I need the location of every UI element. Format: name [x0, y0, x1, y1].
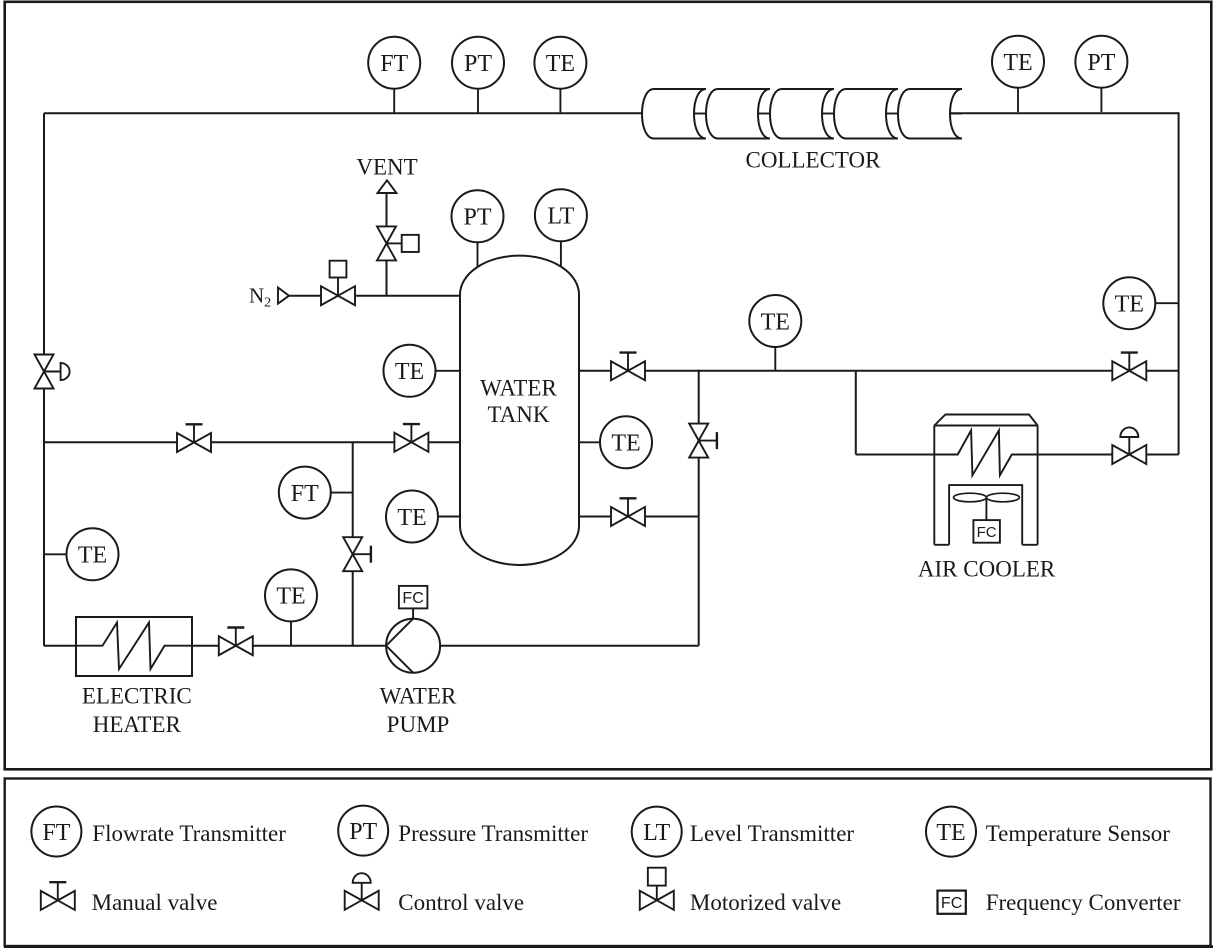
svg-text:WATER: WATER [380, 684, 457, 709]
svg-text:TE: TE [761, 309, 790, 335]
svg-text:PT: PT [349, 819, 377, 845]
svg-text:TE: TE [276, 584, 305, 610]
svg-text:Manual valve: Manual valve [92, 890, 218, 915]
svg-text:LT: LT [547, 204, 574, 230]
svg-text:Pressure Transmitter: Pressure Transmitter [398, 821, 588, 846]
svg-text:COLLECTOR: COLLECTOR [745, 148, 881, 173]
svg-text:TE: TE [936, 820, 965, 846]
svg-text:FT: FT [42, 820, 70, 846]
svg-text:PUMP: PUMP [387, 712, 450, 737]
svg-text:Motorized valve: Motorized valve [690, 890, 841, 915]
svg-text:FT: FT [291, 481, 319, 507]
svg-text:WATER: WATER [480, 375, 557, 400]
svg-text:Temperature Sensor: Temperature Sensor [986, 821, 1171, 846]
svg-text:Frequency Converter: Frequency Converter [986, 890, 1181, 915]
svg-text:PT: PT [464, 51, 492, 77]
svg-text:TE: TE [395, 359, 424, 385]
svg-text:FC: FC [941, 895, 962, 912]
svg-text:TE: TE [1115, 291, 1144, 317]
svg-text:FC: FC [977, 524, 997, 541]
svg-text:VENT: VENT [356, 155, 417, 180]
svg-text:TE: TE [78, 543, 107, 569]
svg-text:HEATER: HEATER [93, 712, 182, 737]
svg-text:LT: LT [643, 820, 670, 846]
svg-text:PT: PT [1087, 50, 1115, 76]
svg-text:TE: TE [546, 51, 575, 77]
svg-text:TE: TE [1003, 50, 1032, 76]
svg-text:AIR COOLER: AIR COOLER [918, 556, 1056, 581]
svg-text:ELECTRIC: ELECTRIC [82, 684, 192, 709]
svg-text:Level Transmitter: Level Transmitter [690, 821, 855, 846]
svg-text:FC: FC [402, 590, 423, 607]
svg-text:Flowrate Transmitter: Flowrate Transmitter [92, 821, 286, 846]
svg-text:PT: PT [463, 205, 491, 231]
svg-text:TE: TE [397, 505, 426, 531]
svg-text:TANK: TANK [487, 402, 549, 427]
svg-text:Control valve: Control valve [398, 890, 524, 915]
svg-text:TE: TE [611, 431, 640, 457]
svg-text:FT: FT [380, 51, 408, 77]
